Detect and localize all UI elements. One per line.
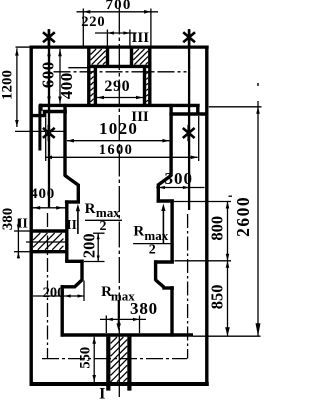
svg-text:220: 220: [81, 14, 105, 30]
dim 380L ext top: [14, 230, 30, 232]
cavity wall right: [143, 66, 146, 105]
dim 1020 arrow right: [162, 139, 169, 143]
chamfer C1 left: [65, 175, 79, 185]
column axis left dash-dot: [47, 213, 49, 359]
top surface extension left: [16, 46, 30, 48]
dim 1200 arrow bottom: [15, 120, 19, 127]
svg-text:300: 300: [164, 169, 193, 188]
dim 200h line: [33, 295, 84, 297]
flange underside line B: [39, 104, 200, 107]
svg-text:R: R: [85, 201, 96, 217]
dim 700 line: [77, 11, 159, 13]
lower wall P5' right: [170, 286, 173, 336]
dim 400h arrow right: [56, 206, 63, 210]
dim 300 text: [164, 169, 193, 188]
dim 380b arrow right: [133, 318, 140, 321]
column mark top-right: [183, 29, 195, 45]
column mark mid-right: [183, 125, 195, 141]
column axis left solid: [48, 30, 50, 208]
cavity wall left: [94, 66, 97, 105]
dim 380L arrow top: [17, 225, 20, 232]
wall P2 left: [77, 184, 80, 202]
dim 2600 dot: [257, 83, 259, 86]
svg-text:II: II: [66, 217, 77, 232]
dim 2600 text: [233, 196, 253, 237]
dim 2600 stray dash: [229, 195, 233, 197]
Rmax2 right arrow stem: [162, 211, 164, 244]
dim 400v text: [57, 72, 76, 99]
dim 2600 line: [257, 101, 259, 336]
dim 380b ext right: [139, 316, 141, 334]
svg-text:550: 550: [77, 347, 93, 369]
dim 220 ext left: [106, 30, 108, 46]
slot wall left: [106, 47, 109, 66]
dim 850 line: [227, 261, 229, 336]
dim 700 arrow right: [144, 10, 151, 14]
chamfer C2 left: [74, 280, 82, 288]
chamfer C1' right: [158, 175, 171, 185]
boss hatch left lower: [91, 71, 94, 102]
dim 1600 text: [99, 142, 134, 158]
bottom plate floor line: [61, 333, 194, 337]
horizontal axis lower dash-dot: [42, 358, 187, 360]
section band top edge: [30, 229, 67, 232]
dim 380b arrow left: [106, 318, 113, 321]
shank wall left: [106, 337, 110, 391]
dim 200v arrow top: [97, 233, 100, 239]
dim 800 arrow bottom: [226, 254, 230, 261]
outer wall left: [30, 46, 33, 386]
dim 550 text: [77, 347, 93, 369]
dim 200h arrow left: [64, 294, 71, 297]
dim 1200 line: [16, 48, 18, 127]
dim 220 arrow left: [107, 31, 114, 34]
dim 220 arrow right: [123, 31, 129, 34]
horizontal axis upper dash-dot: [54, 71, 187, 73]
dim 380L arrow bottom: [17, 252, 20, 259]
dim 700 text: [105, 0, 131, 13]
column mark mid-left: [43, 125, 55, 141]
dim 300 arrow left: [158, 186, 165, 189]
section band mid line: [26, 241, 67, 243]
dim 600 text: [38, 61, 57, 88]
dim 290 text: [104, 78, 130, 95]
column mark top-left: [43, 29, 55, 45]
dim 1600 ext right: [198, 116, 200, 161]
dim 200v arrow bottom: [97, 256, 100, 262]
dim 1600 arrow left: [45, 156, 52, 160]
dim 220 text: [81, 14, 105, 30]
svg-text:1600: 1600: [99, 142, 134, 158]
dim 550 line: [93, 337, 95, 382]
floor thin extension right: [193, 335, 261, 337]
label II outer: [17, 215, 28, 230]
boss hatch left upper: [91, 49, 106, 65]
cavity top line: [87, 65, 151, 68]
dim 1600 arrow right: [191, 156, 198, 160]
dim 800 line: [227, 202, 229, 261]
dim 550 arrow bottom: [92, 375, 96, 382]
Rmax arrow stem: [118, 300, 120, 326]
top plate surface line: [30, 45, 209, 48]
dim 800 arrow top: [226, 202, 230, 209]
dim 220 ext right: [129, 30, 131, 46]
dim 1200 arrow top: [15, 49, 19, 56]
dim 700 arrow left: [83, 10, 90, 14]
dim 300 line: [156, 187, 204, 189]
svg-text:II: II: [17, 215, 28, 230]
dim 290 line: [97, 97, 143, 99]
dim 290 arrow left: [97, 96, 104, 100]
dim 380L text: [0, 208, 16, 231]
dim 380b ext left: [105, 316, 107, 334]
dim 380L line: [17, 219, 19, 259]
wall P2' right: [157, 184, 160, 203]
label III top: [132, 30, 150, 46]
bottom plate line: [30, 382, 209, 386]
dim 400v line: [59, 49, 61, 104]
column axis right solid: [188, 30, 190, 211]
inner face line D left: [38, 105, 41, 151]
dim 600 arrow top: [47, 49, 51, 56]
dim 1600 ext left: [45, 118, 47, 162]
dim 200v line: [97, 233, 99, 261]
boss edge right: [148, 47, 151, 105]
svg-text:2: 2: [100, 219, 107, 234]
dim 2600 arrow top: [256, 107, 260, 114]
dim 850 arrow top: [226, 261, 230, 268]
lip stub right: [196, 104, 199, 114]
dim 400h line: [30, 207, 67, 209]
flange lip left: [30, 114, 46, 117]
svg-text:380: 380: [130, 299, 158, 318]
dim 600 arrow bottom: [47, 97, 51, 104]
dim 850 arrow bottom: [225, 327, 230, 336]
step S3' right: [154, 260, 174, 263]
shelf S4' right: [162, 286, 174, 289]
slot wall right: [130, 47, 133, 66]
dim 200v ext bottom: [84, 261, 105, 263]
dim 380b text: [130, 299, 158, 318]
svg-text:2: 2: [149, 243, 156, 258]
dim 2600 ext top: [209, 106, 262, 108]
section band hatch: [33, 233, 63, 250]
label Rmax/2 right: [133, 224, 171, 258]
vertical centerline dash-dot: [118, 9, 120, 337]
dim 380b line: [100, 318, 146, 320]
lower wall P5 left: [61, 285, 64, 337]
label III bottom: [131, 109, 149, 125]
shelf S4 left: [61, 285, 76, 288]
dim 800 ext bottom: [175, 260, 232, 262]
label I bottom: [99, 386, 105, 400]
dim 290 arrow right: [136, 96, 143, 100]
vertical centerline bottom: [118, 337, 120, 398]
svg-text:380: 380: [0, 208, 16, 231]
dim 200v ext top: [93, 232, 105, 234]
dim 200h ext: [83, 281, 85, 302]
step S2' right: [157, 199, 174, 202]
dim 550 arrow top: [92, 337, 96, 344]
svg-text:R: R: [133, 224, 144, 240]
dim 220 line: [95, 32, 137, 34]
outer wall right: [205, 46, 208, 386]
dim 1020 text: [99, 119, 138, 138]
svg-text:2600: 2600: [233, 196, 253, 237]
boss edge left: [87, 47, 90, 105]
section band bottom edge: [30, 250, 67, 253]
shank hatch: [111, 337, 128, 382]
dim 400v arrow top: [58, 49, 62, 56]
dim 380L ext bottom: [14, 251, 30, 253]
svg-text:800: 800: [208, 216, 227, 241]
dim 2600 arrow bottom: [256, 323, 261, 336]
label Rmax/2 left: [85, 201, 122, 234]
step S3 left: [65, 260, 84, 263]
svg-text:max: max: [144, 228, 168, 243]
step S2 left: [65, 200, 80, 203]
dim 200h text: [43, 285, 65, 301]
svg-text:1200: 1200: [0, 70, 16, 100]
svg-text:850: 850: [208, 285, 227, 310]
dim 400h text: [30, 186, 55, 202]
svg-text:600: 600: [38, 61, 57, 88]
label II inner: [66, 217, 77, 232]
dim 1020 line: [67, 140, 169, 142]
chamfer C2' right: [156, 280, 164, 287]
dim 850 text: [208, 285, 227, 310]
column axis right dash-dot: [187, 214, 189, 359]
svg-text:290: 290: [104, 78, 130, 95]
shank wall right: [127, 337, 131, 391]
dim 700 ext right: [150, 9, 152, 46]
inner wall left upper P1: [63, 104, 66, 176]
dim 400v arrow bottom: [58, 97, 62, 104]
svg-text:max: max: [96, 205, 120, 220]
lip stub b left: [43, 111, 46, 117]
dim 300 arrow right: [183, 186, 190, 189]
section II arrow stem: [77, 211, 79, 235]
boss hatch right upper: [133, 49, 148, 65]
inner wall right upper P1': [169, 104, 172, 176]
Rmax2 right arrow head: [161, 204, 165, 212]
section II arrow head: [76, 204, 80, 212]
dim 1020 arrow left: [67, 139, 74, 143]
label Rmax bottom: [101, 284, 135, 303]
dim 800 ext top: [174, 201, 231, 203]
svg-text:200: 200: [43, 285, 65, 301]
dim 1200 text: [0, 70, 16, 100]
dim 800 text: [208, 216, 227, 241]
dim 700 ext left: [82, 9, 84, 46]
Rmax arrow head: [117, 323, 121, 331]
svg-text:1020: 1020: [99, 119, 138, 138]
dim 200h arrow right: [78, 294, 85, 297]
underside step line C right: [169, 112, 206, 115]
dim 1600 line: [45, 156, 198, 158]
gauge line mid-left: [15, 130, 67, 132]
cavity top ext line: [68, 67, 88, 69]
boss hatch right lower: [146, 72, 148, 102]
underside step line C left: [43, 110, 67, 113]
svg-text:200: 200: [80, 233, 99, 258]
wall P3' right: [170, 199, 173, 262]
dim 200v text: [80, 233, 99, 258]
wall P4' right: [154, 260, 157, 281]
wall P4 left: [80, 260, 83, 281]
dim 400h arrow left: [33, 206, 40, 210]
wall P3 left: [65, 200, 68, 261]
svg-text:I: I: [99, 386, 105, 400]
svg-text:III: III: [132, 30, 150, 46]
lip stub a left: [39, 104, 42, 111]
svg-text:400: 400: [30, 186, 55, 202]
